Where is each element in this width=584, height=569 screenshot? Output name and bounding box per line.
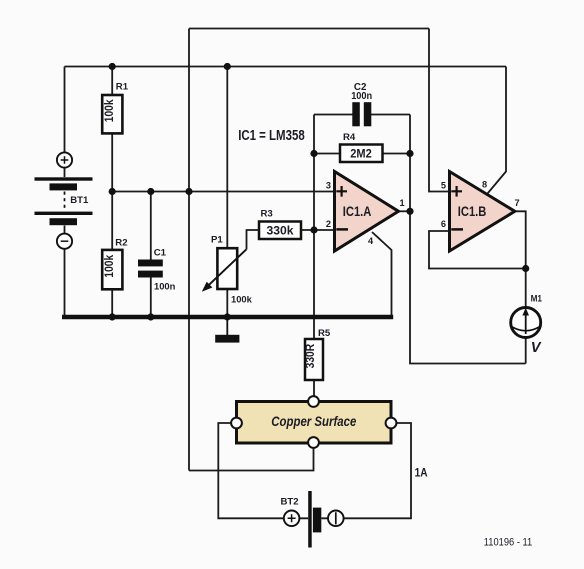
op-amp IC1.A [326,172,405,252]
wire supply rail y=66 (battery + to IC1.B pin 8) [65,66,507,68]
node R2 bottom on rail [109,313,116,320]
svg-text:330R: 330R [303,343,317,368]
node IC1.A output [406,208,413,215]
svg-text:R3: R3 [261,209,273,220]
svg-text:100n: 100n [351,91,372,102]
svg-text:IC1 = LM358: IC1 = LM358 [238,127,305,144]
wire C2 left lead [314,114,353,116]
resistor R2 [102,238,127,290]
svg-text:1A: 1A [415,465,428,479]
wire IC1.B pin 6 feedback loop [429,231,526,269]
svg-text:2M2: 2M2 [350,147,372,160]
wire top loop (node A: pin3 / pin5 / copper bottom) [189,28,429,30]
svg-text:100k: 100k [102,254,116,277]
wire P1 top lead [226,67,228,249]
wire BT2 internal links [299,517,328,519]
svg-text:R4: R4 [343,132,356,143]
wire R2 bottom lead [111,289,113,317]
wire copper bottom terminal to node A vertical [189,448,314,471]
wire meter M1 bottom lead [525,338,527,364]
resistor R4 [340,132,383,162]
svg-text:6: 6 [441,219,446,229]
wire C1 bottom lead [150,277,152,317]
wire R3 left lead down to P1 wiper [247,230,260,250]
capacitor C2 [351,82,372,126]
wire IC1.A output pin 1 [398,210,410,212]
wire copper right terminal to BT2 current source [344,423,411,518]
svg-text:R2: R2 [115,238,127,249]
ground rail (0V bus) [62,315,393,319]
svg-text:110196 - 11: 110196 - 11 [484,536,532,548]
svg-text:P1: P1 [211,235,223,246]
copper surface block [231,396,396,448]
wire copper left terminal to BT2 plus [218,423,283,518]
ground symbol [215,319,239,343]
node R1/R2 [109,188,116,195]
svg-text:BT1: BT1 [70,195,89,206]
wire C1 top lead [150,192,152,261]
wire R3 right lead to IC1.A pin 2 [301,229,335,231]
wire R4 right lead [383,153,411,155]
wire IC1.B output pin 7 down to meter M1 [515,211,526,308]
op-amp IC1.B [441,172,520,252]
node R4 right [406,150,413,157]
svg-text:R1: R1 [116,82,129,93]
svg-text:330k: 330k [267,225,295,238]
svg-text:V: V [531,340,542,356]
wire feedback left vertical x=314 (C2/R4 to pin2 and R5) [313,115,315,340]
resistor R3 [259,209,301,240]
svg-text:100n: 100n [154,280,176,291]
meter M1 [511,293,543,356]
svg-text:R5: R5 [318,328,331,339]
wire feedback right vertical x=410 (IC1.A output node down to meter) [410,115,526,364]
wire R4 left lead [314,153,340,155]
node C1 top [147,188,154,195]
potentiometer P1 [202,235,253,305]
node R1 top [109,63,116,70]
svg-text:1: 1 [400,198,405,208]
svg-text:2: 2 [326,219,331,229]
node P1 top [224,63,231,70]
wire IC1.A pin 4 to ground rail [372,232,392,317]
svg-text:8: 8 [482,180,487,190]
wire vertical x=429 down to IC1.B pin 5 [429,29,450,192]
battery BT1 [35,152,93,248]
wire mid rail y=191 to IC1.A pin 3 [112,191,334,193]
svg-text:7: 7 [515,198,520,208]
wire P1 bottom lead [226,289,228,317]
svg-text:IC1.A: IC1.A [343,204,372,219]
battery BT2 with current source [281,491,344,548]
svg-text:M1: M1 [531,293,543,304]
wire x=506 down and diagonal to IC1.B pin 8 [488,67,507,194]
terminal bottom [308,437,319,448]
svg-text:Copper Surface: Copper Surface [271,413,356,429]
wire R5 bottom lead to copper top terminal [313,380,315,397]
terminal left [231,418,242,429]
wire R1 top lead [111,67,113,96]
wire battery BT1 bottom lead [64,226,66,318]
wire C2 right lead [371,114,410,116]
svg-text:IC1.B: IC1.B [458,204,487,219]
capacitor C1 [138,248,176,292]
wire R2 top lead [111,192,113,251]
node IC1.B output loop [522,265,529,272]
resistor R1 [102,82,129,134]
svg-text:4: 4 [368,236,374,246]
terminal top [308,396,319,407]
node pin2 [310,226,317,233]
resistor R5 [303,328,331,380]
node R4 left [310,150,317,157]
node A on pin3 wire [185,188,192,195]
wire battery BT1 top lead [64,67,66,178]
node C1 bottom on rail [147,313,154,320]
wire vertical x=189 from top loop down to copper bottom wire [188,29,190,471]
wire R1 bottom lead [111,133,113,191]
svg-text:5: 5 [441,181,446,191]
svg-text:100k: 100k [231,294,253,305]
svg-text:100k: 100k [102,99,116,122]
svg-text:C1: C1 [154,248,167,259]
terminal right [386,418,397,429]
svg-text:BT2: BT2 [281,497,299,508]
node P1 bottom on rail [224,313,231,320]
svg-text:3: 3 [326,181,331,191]
